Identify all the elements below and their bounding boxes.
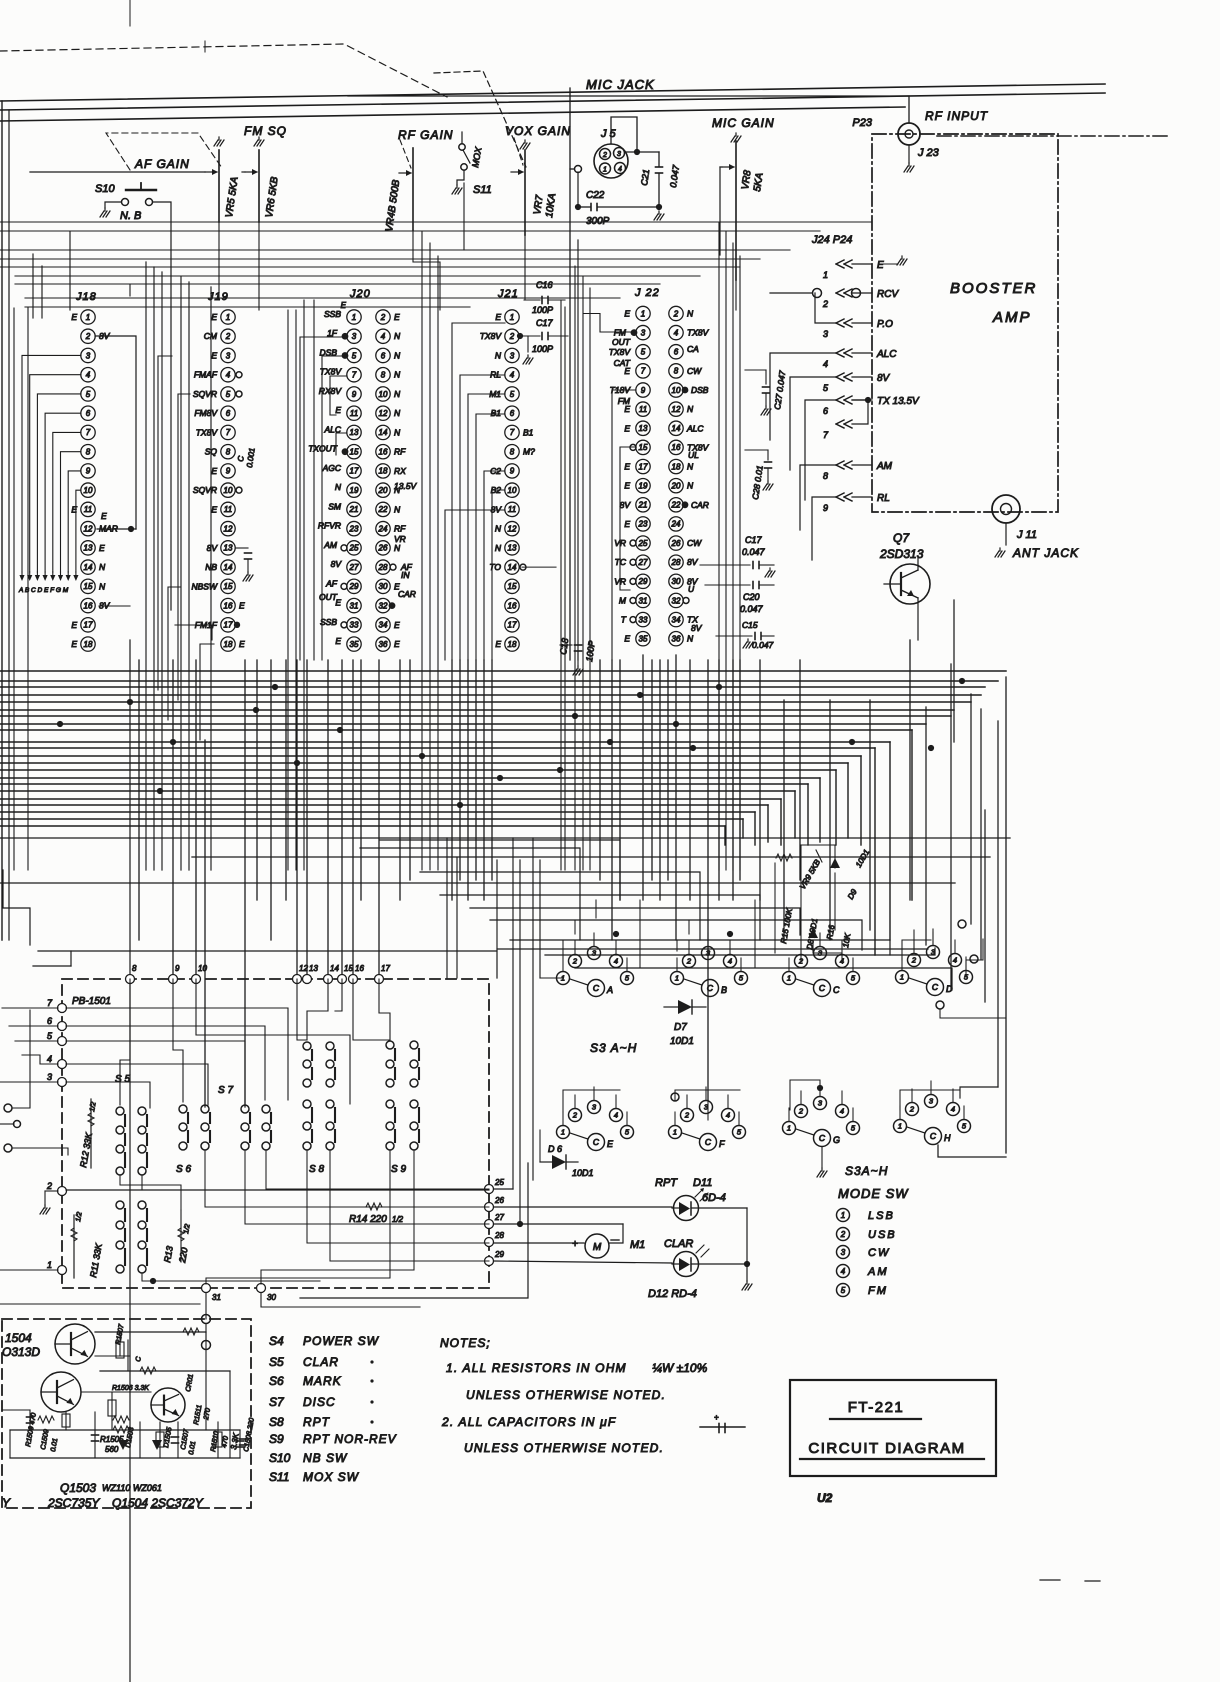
ground at J23 (904, 163, 914, 172)
wire J18 box left2 (13, 308, 15, 870)
svg-text:0.01: 0.01 (50, 1438, 59, 1453)
svg-text:14: 14 (224, 563, 233, 572)
wire bus top area 2 (0, 230, 820, 232)
PB-1501 terminal 15 (338, 964, 354, 984)
arrow bus A-M below J18 (18, 572, 79, 594)
svg-text:27: 27 (349, 563, 359, 572)
svg-text:VR6 5KB: VR6 5KB (264, 176, 281, 219)
J22 pin 19 (E) (624, 478, 650, 492)
PB-1501 terminal 16 (349, 964, 365, 984)
svg-text:3: 3 (818, 1099, 823, 1108)
motor M1 (572, 1234, 645, 1258)
svg-text:22: 22 (671, 501, 681, 510)
svg-text:12: 12 (84, 524, 93, 533)
note 1 line 1 (446, 1361, 708, 1375)
svg-text:Q1503: Q1503 (60, 1481, 96, 1495)
svg-text:220: 220 (177, 1247, 190, 1265)
J20 pin 14 (N) (376, 425, 401, 439)
svg-text:E: E (239, 639, 245, 649)
J22 pin 4 (TX8V) (669, 325, 710, 339)
svg-text:B1: B1 (491, 408, 502, 418)
svg-text:J19: J19 (207, 291, 229, 303)
J21 pin 5 (M1) (489, 387, 519, 401)
svg-text:E: E (71, 312, 77, 322)
wire mesh row y799 (0, 799, 781, 845)
J18 pin 14 (N) (81, 560, 106, 574)
svg-text:TC: TC (615, 557, 627, 567)
svg-text:36: 36 (379, 640, 388, 649)
svg-text:J18: J18 (75, 291, 97, 303)
svg-text:17: 17 (508, 621, 517, 630)
svg-text:LSB: LSB (868, 1210, 895, 1222)
J20 pin 20 (N) (376, 483, 401, 497)
J22 pin 2 (N) (669, 306, 694, 320)
svg-text:N: N (394, 408, 401, 418)
J21 pin 8 (M?) (505, 444, 535, 458)
J20 pin 2 (E) (376, 310, 400, 324)
svg-text:C16: C16 (536, 280, 553, 290)
pot VR7 wiper arrow (511, 169, 524, 175)
wires PB internal (66, 979, 489, 1284)
legend S10 NB SW (269, 1451, 348, 1465)
svg-text:MOX SW: MOX SW (303, 1470, 360, 1484)
svg-text:AM: AM (323, 540, 338, 550)
svg-text:17: 17 (381, 964, 390, 973)
svg-text:SSB: SSB (324, 309, 341, 319)
svg-text:15: 15 (84, 582, 93, 591)
pot VR4B body (412, 148, 414, 230)
J20 pin 15 (TXOUT) (308, 444, 361, 459)
connector J24 pin 9 (RL) (823, 493, 890, 513)
PB-1501 terminal 17 (375, 964, 391, 984)
label VR5 5KA (224, 176, 241, 219)
svg-text:E: E (211, 504, 217, 514)
svg-text:8: 8 (86, 447, 91, 456)
J22 pin 20 (N) (669, 478, 694, 492)
J18 pin 9 (81, 464, 95, 478)
svg-text:BOOSTER: BOOSTER (950, 280, 1037, 297)
wires PB right terminals out (300, 1163, 672, 1298)
Q1503 box dashed (2, 1319, 251, 1508)
J20 pin 22 (N) (376, 502, 401, 516)
wire mesh row y756 (0, 756, 861, 845)
J22 pin 18 (N) (669, 459, 694, 473)
PB-1501 terminal 12 (293, 964, 309, 984)
J20 pin 9 (RX8V) (319, 386, 361, 401)
PB-1501 terminal 27 (485, 1213, 505, 1229)
svg-text:28: 28 (378, 563, 388, 572)
J21 pin 18 (E) (495, 637, 519, 651)
svg-text:D9: D9 (846, 887, 859, 901)
svg-text:E: E (394, 639, 400, 649)
pot VR7 body (524, 150, 526, 235)
svg-text:DISC: DISC (303, 1395, 336, 1409)
svg-text:N: N (687, 481, 694, 491)
svg-text:25: 25 (494, 1178, 504, 1187)
J22 pin 3 (FM) (614, 325, 650, 339)
wire S11 drop (463, 183, 465, 250)
svg-text:CR01: CR01 (185, 1373, 195, 1392)
wire wafer H box bottom (938, 1087, 1006, 1157)
pot VR4B wiper arrow (399, 170, 412, 176)
J22 pin 12 (N) (669, 402, 694, 416)
wires to PB left terminals (0, 1008, 58, 1270)
title box (790, 1380, 996, 1476)
svg-text:7: 7 (823, 430, 829, 440)
wires below PB (0, 1293, 420, 1350)
svg-text:11: 11 (639, 405, 647, 414)
svg-text:C1508 220: C1508 220 (243, 1417, 256, 1452)
J22 pin 9 (T18V) (610, 383, 651, 397)
wires wafer G area (790, 1080, 827, 1177)
wires J22 left feeds (584, 314, 636, 661)
svg-text:27: 27 (638, 558, 648, 567)
J22 pin 21 (8V) (620, 498, 651, 512)
pot VR6 body (258, 150, 260, 222)
svg-text:34: 34 (379, 621, 388, 630)
svg-text:S5: S5 (269, 1355, 284, 1369)
svg-text:E: E (211, 312, 217, 322)
components above wafer C (775, 845, 871, 961)
Q-box internal wires (2, 1328, 244, 1458)
svg-text:34: 34 (672, 615, 681, 624)
page border top line 3 (0, 107, 905, 121)
svg-text:16: 16 (84, 601, 93, 610)
svg-text:22: 22 (378, 505, 388, 514)
label MIC GAIN (712, 116, 775, 130)
J18 pin 17 (E) (71, 618, 95, 632)
resistor R12 33K 1/2 (78, 1099, 98, 1168)
svg-text:6D-4: 6D-4 (702, 1192, 726, 1204)
svg-text:5: 5 (625, 974, 630, 983)
svg-text:CLAR: CLAR (303, 1355, 339, 1369)
coax jack P23 (898, 123, 920, 145)
J20 pin 21 (SM) (328, 501, 361, 516)
svg-text:23: 23 (638, 520, 648, 529)
svg-text:1. ALL RESISTORS IN OHM: 1. ALL RESISTORS IN OHM (446, 1361, 627, 1375)
svg-text:C: C (135, 1355, 143, 1362)
capacitor C15 0.047 (716, 620, 774, 650)
svg-text:17: 17 (224, 621, 233, 630)
svg-text:¼W ±10%: ¼W ±10% (652, 1361, 708, 1375)
stray marks bottom right (1040, 1580, 1100, 1581)
svg-text:E: E (495, 312, 501, 322)
wires J19 verticals (288, 300, 304, 870)
wire J18 pin2 8V (95, 336, 136, 529)
J21 pin 7 (B1) (505, 425, 534, 439)
label MOX (470, 145, 484, 168)
svg-text:6: 6 (226, 409, 231, 418)
svg-text:J 11: J 11 (1016, 529, 1037, 541)
svg-text:NOTES;: NOTES; (440, 1336, 491, 1350)
J21 pin 4 (RL) (490, 368, 519, 382)
wire vertical bus through mesh right (600, 640, 910, 1100)
J20 pin 23 (RFVR) (318, 521, 361, 536)
wire VR5 drop (218, 222, 220, 300)
label J11 (1016, 529, 1037, 541)
svg-text:21: 21 (638, 501, 648, 510)
svg-text:VR5 5KA: VR5 5KA (224, 176, 241, 219)
svg-text:S7: S7 (269, 1395, 285, 1409)
coax jack J11 (992, 495, 1020, 523)
J20 pin 25 (AM) (323, 540, 361, 555)
svg-text:J 5: J 5 (600, 128, 617, 140)
svg-text:32: 32 (672, 596, 681, 605)
rotary switch S3 wafer A (557, 947, 634, 997)
wires S3 wafer A stubs (563, 933, 627, 972)
pot VR5 wiper arrow (205, 169, 218, 175)
title FT-221 (830, 1399, 921, 1419)
svg-text:5: 5 (737, 1128, 742, 1137)
wires S3 wafer D stubs (902, 932, 966, 971)
svg-text:10: 10 (508, 486, 517, 495)
svg-text:D12 RD-4: D12 RD-4 (648, 1288, 697, 1300)
wires wafer A area (540, 900, 640, 978)
svg-text:C: C (705, 1137, 712, 1147)
svg-text:18: 18 (379, 467, 388, 476)
rotary switch S3 wafer H (894, 1095, 971, 1145)
svg-text:C15: C15 (742, 620, 758, 630)
svg-text:35: 35 (350, 640, 359, 649)
svg-text:5: 5 (851, 1124, 856, 1133)
svg-text:Q1504 2SC372Y: Q1504 2SC372Y (112, 1496, 204, 1510)
svg-text:N: N (335, 482, 342, 492)
connector J20 title (349, 288, 371, 300)
title CIRCUIT DIAGRAM (800, 1440, 984, 1459)
svg-text:12: 12 (508, 524, 517, 533)
fold line vertical center-left (129, 640, 131, 1682)
svg-text:C: C (236, 455, 246, 462)
svg-text:J20: J20 (349, 288, 371, 300)
J20 pin 1 (SSB) (324, 309, 361, 324)
svg-text:E: E (394, 312, 400, 322)
svg-text:R15 100K: R15 100K (779, 907, 794, 944)
svg-text:2. ALL CAPACITORS IN μF: 2. ALL CAPACITORS IN μF (441, 1415, 616, 1429)
svg-text:ALC: ALC (876, 349, 897, 360)
connector J18 title (75, 291, 97, 303)
svg-text:8: 8 (510, 447, 515, 456)
wires wafer H area (900, 1090, 960, 1110)
svg-text:FM: FM (868, 1285, 888, 1297)
Q-box small labels (25, 1323, 256, 1456)
svg-text:1: 1 (841, 1211, 845, 1220)
svg-text:NB SW: NB SW (303, 1451, 348, 1465)
left edge connector stubs (0, 1010, 68, 1155)
dashed panel outline top-left (0, 44, 447, 97)
wire J24 pin9 feed (812, 497, 836, 560)
svg-text:35: 35 (639, 635, 648, 644)
J21 pin 13 (N) (495, 541, 519, 555)
J22 pin 26 (CW) (669, 536, 702, 550)
svg-text:4: 4 (614, 1111, 618, 1120)
svg-text:5KA: 5KA (752, 172, 766, 193)
wire bus top area 9 (25, 306, 470, 308)
J20 pin 35 (E) (335, 636, 361, 651)
svg-text:MOX: MOX (470, 145, 484, 168)
svg-text:S 7: S 7 (218, 1085, 233, 1096)
LED CLAR D12 (648, 1238, 747, 1300)
svg-text:CW: CW (868, 1247, 890, 1259)
svg-text:8V: 8V (687, 557, 699, 567)
svg-text:R11 33K: R11 33K (88, 1242, 104, 1279)
dashed link segment mid (434, 71, 526, 167)
svg-text:E: E (624, 423, 630, 433)
svg-text:13.5V: 13.5V (394, 481, 418, 491)
svg-text:R12 33K: R12 33K (78, 1131, 94, 1168)
svg-text:N: N (394, 389, 401, 399)
label S11 (473, 184, 492, 196)
wire bus top area 6 (15, 275, 700, 277)
svg-text:32: 32 (379, 601, 388, 610)
wire mesh row y778 (0, 778, 820, 842)
ground above VR5 (214, 137, 224, 146)
J19 pin 16 (E) (221, 598, 245, 612)
J21 pin 17 (505, 618, 519, 632)
PB-1501 terminal 30 (257, 1284, 277, 1303)
svg-text:18: 18 (508, 640, 517, 649)
svg-text:4: 4 (823, 359, 828, 369)
svg-text:B1: B1 (523, 427, 534, 437)
J20 pin 30 (E) (376, 579, 400, 593)
switch S5 (115, 1074, 147, 1175)
svg-text:3: 3 (929, 1097, 934, 1106)
svg-text:S 8: S 8 (309, 1164, 324, 1175)
svg-text:N: N (495, 350, 502, 360)
svg-text:SQVR: SQVR (193, 389, 217, 399)
svg-text:CAT: CAT (614, 358, 631, 368)
svg-text:17: 17 (350, 467, 359, 476)
label WZ110 WZ061 (102, 1483, 162, 1493)
svg-text:16: 16 (224, 601, 233, 610)
svg-text:2: 2 (911, 956, 917, 965)
svg-text:E: E (624, 634, 630, 644)
svg-text:TX8V: TX8V (480, 331, 503, 341)
svg-text:RPT: RPT (303, 1415, 331, 1429)
label MODE SW (838, 1186, 909, 1201)
J22 pin 1 (E) (624, 306, 650, 320)
wire J18 box left (27, 308, 29, 870)
svg-text:AM: AM (876, 461, 893, 472)
svg-text:AMP: AMP (992, 309, 1032, 326)
svg-text:S4: S4 (269, 1334, 284, 1348)
wires right verticals below mesh (447, 838, 540, 1224)
svg-text:C: C (932, 982, 939, 992)
wires J19 left feeds (158, 356, 212, 720)
svg-text:28: 28 (494, 1231, 504, 1240)
svg-text:CA: CA (687, 344, 699, 354)
svg-text:ALC: ALC (686, 423, 704, 433)
svg-text:18: 18 (84, 640, 93, 649)
svg-text:2: 2 (380, 313, 386, 322)
svg-text:15: 15 (224, 582, 233, 591)
svg-text:17: 17 (639, 462, 648, 471)
connector J24 pin 6 (TX 13.5V) (823, 396, 920, 416)
svg-text:TX8V: TX8V (320, 367, 343, 377)
svg-text:P23: P23 (852, 117, 872, 129)
connector J24 pin 1 (E) (823, 260, 884, 280)
connector J21 title (497, 288, 519, 300)
svg-text:R1511: R1511 (193, 1404, 203, 1425)
svg-text:E: E (335, 636, 341, 646)
svg-text:19: 19 (350, 486, 359, 495)
svg-text:29: 29 (638, 577, 648, 586)
label NOTES (440, 1336, 491, 1350)
svg-text:J21: J21 (497, 288, 519, 300)
svg-text:3: 3 (841, 1248, 846, 1257)
label VR7 10KA (532, 192, 558, 218)
svg-text:A: A (606, 985, 613, 995)
svg-text:C28 0.01: C28 0.01 (750, 464, 765, 500)
svg-text:3: 3 (592, 1103, 597, 1112)
svg-text:FMAF: FMAF (194, 370, 218, 380)
J22 pin 6 (669, 345, 683, 359)
J22 pin 7 (E) (624, 364, 650, 378)
page left edge vertical 2 (8, 110, 10, 940)
connector J22 title (634, 287, 660, 299)
PB-1501 terminal 3 (47, 1072, 67, 1087)
svg-text:4: 4 (47, 1054, 52, 1064)
J20 pin 10 (N) (376, 387, 401, 401)
svg-text:5: 5 (823, 383, 829, 393)
svg-text:CAR: CAR (398, 589, 416, 599)
wires wafer E-F area (540, 1090, 740, 1162)
svg-text:N: N (687, 404, 694, 414)
wires S3 wafer H stubs (900, 1081, 964, 1120)
J20 pin 24 (RF) (376, 521, 406, 535)
note 2 line 1 (441, 1415, 616, 1429)
J18 pin 18 (E) (71, 637, 95, 651)
rotary switch S3 wafer B (671, 947, 748, 997)
wires S3 wafer C stubs (789, 933, 853, 972)
wire bus top area 4 (0, 258, 760, 260)
ground at J11 (995, 548, 1005, 557)
svg-text:30: 30 (379, 582, 388, 591)
resistor R13 220 1/2 (162, 1210, 192, 1264)
J20 pin 13 (ALC) (323, 424, 361, 439)
PB-1501 terminal 8 (126, 964, 138, 984)
wire J24 pin1 E ground (882, 256, 907, 265)
svg-text:S11: S11 (269, 1470, 289, 1484)
svg-text:11: 11 (508, 505, 516, 514)
J22 pin 16 (TX8V) (669, 440, 710, 454)
wire mic jack feed (348, 96, 909, 123)
svg-text:4: 4 (226, 371, 231, 380)
svg-text:2: 2 (85, 332, 91, 341)
legend S9 RPT NOR-REV (269, 1432, 397, 1446)
ground above VR7 (520, 140, 530, 149)
svg-text:F: F (719, 1139, 725, 1149)
J20 pin 33 (SSB) (320, 617, 361, 632)
J20 extra sublabels (319, 301, 416, 602)
svg-text:8V: 8V (877, 373, 891, 384)
svg-text:TX8V: TX8V (196, 427, 219, 437)
svg-text:FM: FM (618, 396, 631, 406)
svg-text:R1510: R1510 (210, 1431, 220, 1453)
wires J20 right bus (422, 232, 438, 870)
svg-text:10D1: 10D1 (670, 1036, 694, 1047)
PB-1501 terminal 25 (485, 1178, 505, 1194)
svg-text:16: 16 (379, 447, 388, 456)
J20 pin 19 (N) (335, 482, 361, 497)
svg-text:2: 2 (602, 152, 607, 159)
resistor R11 33K 1/2 (71, 1211, 104, 1278)
svg-text:Y: Y (2, 1496, 11, 1510)
diode D7 10D1 (664, 1000, 706, 1047)
J18 pin 12 ( MAR) (81, 521, 118, 535)
svg-text:C17: C17 (536, 318, 554, 328)
svg-text:D7: D7 (674, 1022, 687, 1033)
note capacitor symbol (700, 1413, 745, 1433)
